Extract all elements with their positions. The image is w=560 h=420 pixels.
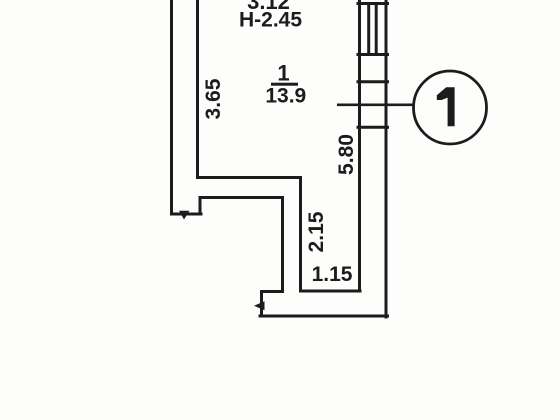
svg-text:5.80: 5.80 <box>335 134 358 175</box>
svg-text:2.15: 2.15 <box>305 211 328 252</box>
svg-text:H-2.45: H-2.45 <box>239 9 302 32</box>
svg-text:1: 1 <box>277 61 289 86</box>
svg-text:13.9: 13.9 <box>265 85 306 108</box>
svg-text:1.15: 1.15 <box>312 263 353 286</box>
svg-text:3.65: 3.65 <box>202 78 225 119</box>
